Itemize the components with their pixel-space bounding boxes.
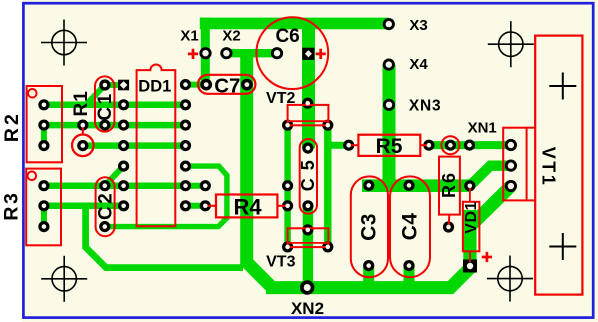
svg-text:VD1: VD1 [463,201,480,234]
svg-text:DD1: DD1 [138,77,171,95]
svg-text:C3: C3 [358,213,381,241]
svg-text:R1: R1 [71,90,92,116]
svg-text:C7: C7 [214,75,240,98]
svg-text:XN2: XN2 [291,299,324,318]
svg-text:X4: X4 [409,56,428,73]
svg-text:C1: C1 [95,91,116,120]
svg-text:C4: C4 [398,213,421,241]
svg-text:XN3: XN3 [409,97,442,114]
svg-text:VT1: VT1 [538,147,558,188]
svg-text:C6: C6 [275,26,299,47]
svg-text:R4: R4 [234,195,263,220]
svg-text:VT2: VT2 [266,90,295,107]
svg-text:C5: C5 [298,152,318,191]
svg-text:X3: X3 [409,17,427,34]
svg-text:X1: X1 [180,27,198,44]
svg-text:X2: X2 [222,27,240,44]
svg-text:R5: R5 [376,135,403,158]
svg-text:XN1: XN1 [468,120,497,137]
svg-text:VT3: VT3 [266,254,295,271]
svg-text:R3: R3 [1,191,23,221]
svg-text:R2: R2 [1,111,23,142]
svg-text:C2: C2 [95,191,116,220]
svg-text:R6: R6 [439,171,459,198]
